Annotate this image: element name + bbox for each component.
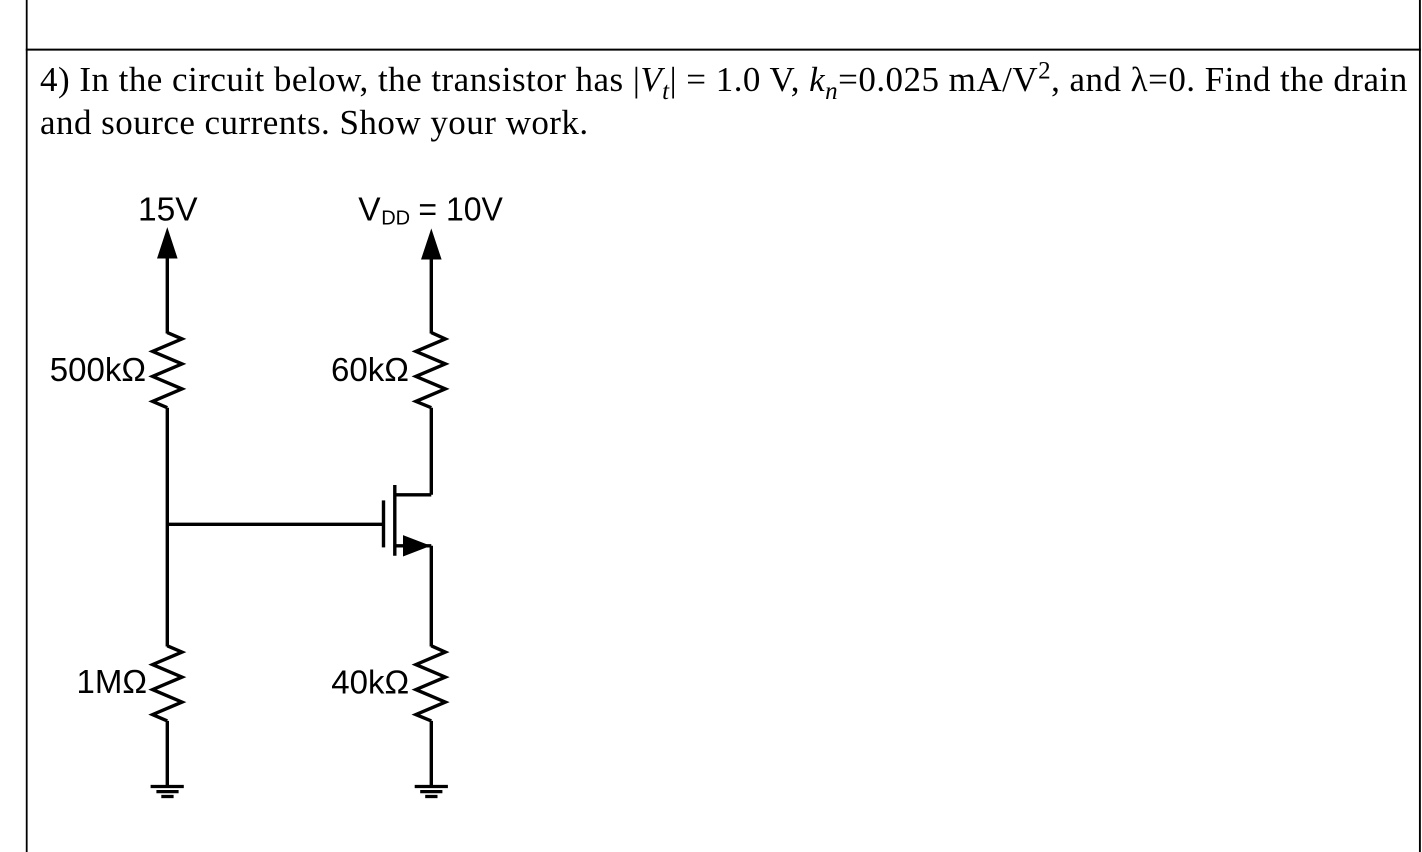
wire R2 to ground: [166, 721, 169, 786]
resistor R2 1M: [153, 646, 182, 721]
transistor Q1 source lead: [396, 544, 431, 547]
wire 15V supply to R1: [166, 256, 169, 334]
problem statement text: [40, 58, 1422, 145]
wire gate to node A: [167, 523, 385, 526]
resistor R4 40k: [416, 646, 445, 721]
transistor Q1 source arrow: [404, 536, 430, 556]
svg-text:500kΩ: 500kΩ: [50, 351, 146, 388]
wire R4 to ground: [430, 721, 433, 786]
svg-text:15V: 15V: [138, 191, 198, 228]
svg-text:1MΩ: 1MΩ: [77, 663, 148, 700]
transistor Q1 gate bar: [382, 500, 385, 547]
svg-text:60kΩ: 60kΩ: [331, 351, 409, 388]
transistor Q1 channel bar: [393, 485, 396, 556]
table cell border right: [1419, 0, 1421, 852]
svg-text:VDD= 10V: VDD= 10V: [358, 191, 503, 229]
wire VDD supply to R3: [430, 257, 433, 334]
transistor Q1 drain lead: [396, 493, 431, 496]
power supply arrow VDD: [422, 230, 441, 259]
power supply arrow 15V: [158, 229, 177, 258]
ground left: [151, 787, 184, 797]
wire R1 to node A to R2: [166, 408, 169, 647]
resistor R1 500k: [153, 333, 182, 408]
resistor R3 60k: [416, 333, 445, 408]
svg-text:40kΩ: 40kΩ: [331, 664, 409, 701]
table cell border top: [26, 49, 1421, 51]
table cell border left: [26, 0, 28, 852]
wire source to R4: [430, 546, 433, 647]
ground right: [415, 787, 448, 797]
wire R3 to drain: [430, 408, 433, 495]
